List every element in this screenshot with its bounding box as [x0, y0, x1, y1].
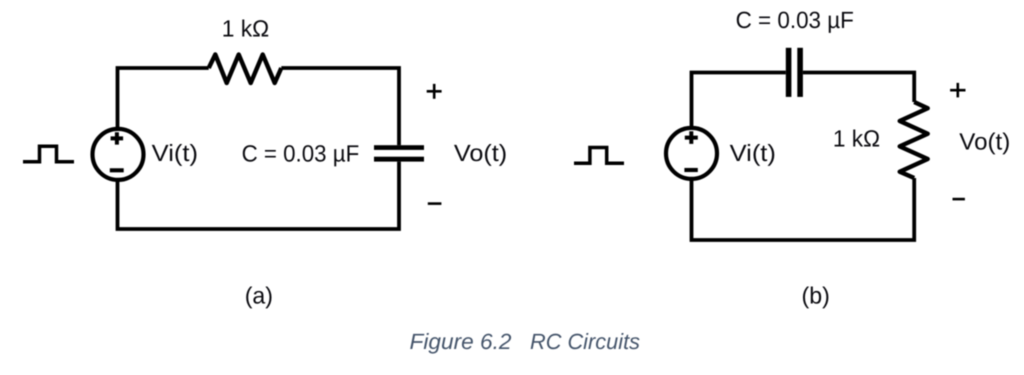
capacitor C (a) bottom plate [374, 157, 424, 162]
resistor 1 kΩ (a) zigzag [209, 55, 282, 84]
wire: circuit (a) right-bottom segment from capacitor to bottom-left corner [118, 162, 400, 229]
resistor 1 kΩ (b) vertical zigzag [900, 102, 928, 178]
wire: circuit (b) right-bottom segment from resistor to source bottom [692, 178, 915, 240]
polarity minus sign (b) [953, 198, 965, 201]
svg-text:(b): (b) [802, 282, 830, 308]
capacitor C (b) right plate [797, 48, 803, 97]
pulse input symbol (b) [574, 148, 624, 164]
svg-text:(a): (a) [245, 282, 273, 308]
svg-text:1 kΩ: 1 kΩ [222, 16, 270, 42]
polarity minus sign (a) [428, 202, 442, 205]
polarity plus sign (b) [950, 83, 965, 98]
svg-text:Figure 6.2: Figure 6.2 [410, 329, 512, 354]
svg-text:Vo(t): Vo(t) [959, 128, 1010, 154]
svg-text:Vo(t): Vo(t) [454, 140, 507, 166]
capacitor C (a) top plate [374, 145, 424, 150]
wire: circuit (a) left-top segment from source top to resistor start [118, 68, 209, 130]
wire: circuit (a) top-right segment from resistor to capacitor top plate [281, 68, 399, 145]
capacitor C (b) left plate [786, 48, 792, 97]
svg-text:Vi(t): Vi(t) [152, 140, 198, 166]
voltage source Vi(t) (b) circle [666, 128, 717, 179]
svg-text:1 kΩ: 1 kΩ [833, 126, 880, 152]
wire: circuit (b) top-right segment from capacitor to resistor top [803, 73, 914, 103]
polarity plus sign (a) [427, 84, 442, 99]
svg-text:Vi(t): Vi(t) [730, 140, 776, 166]
voltage source (a) minus mark [110, 168, 124, 172]
svg-text:C = 0.03 µF: C = 0.03 µF [242, 141, 360, 167]
voltage source (a) plus mark [111, 132, 124, 144]
voltage source Vi(t) (a) circle [93, 129, 144, 180]
svg-text:C = 0.03 µF: C = 0.03 µF [736, 7, 854, 33]
voltage source (b) plus mark [685, 131, 698, 144]
voltage source (b) minus mark [684, 168, 697, 172]
pulse input symbol (a) [23, 146, 74, 162]
svg-text:RC Circuits: RC Circuits [530, 329, 640, 354]
wire: circuit (b) left-top segment from source top to capacitor left plate [692, 73, 786, 129]
